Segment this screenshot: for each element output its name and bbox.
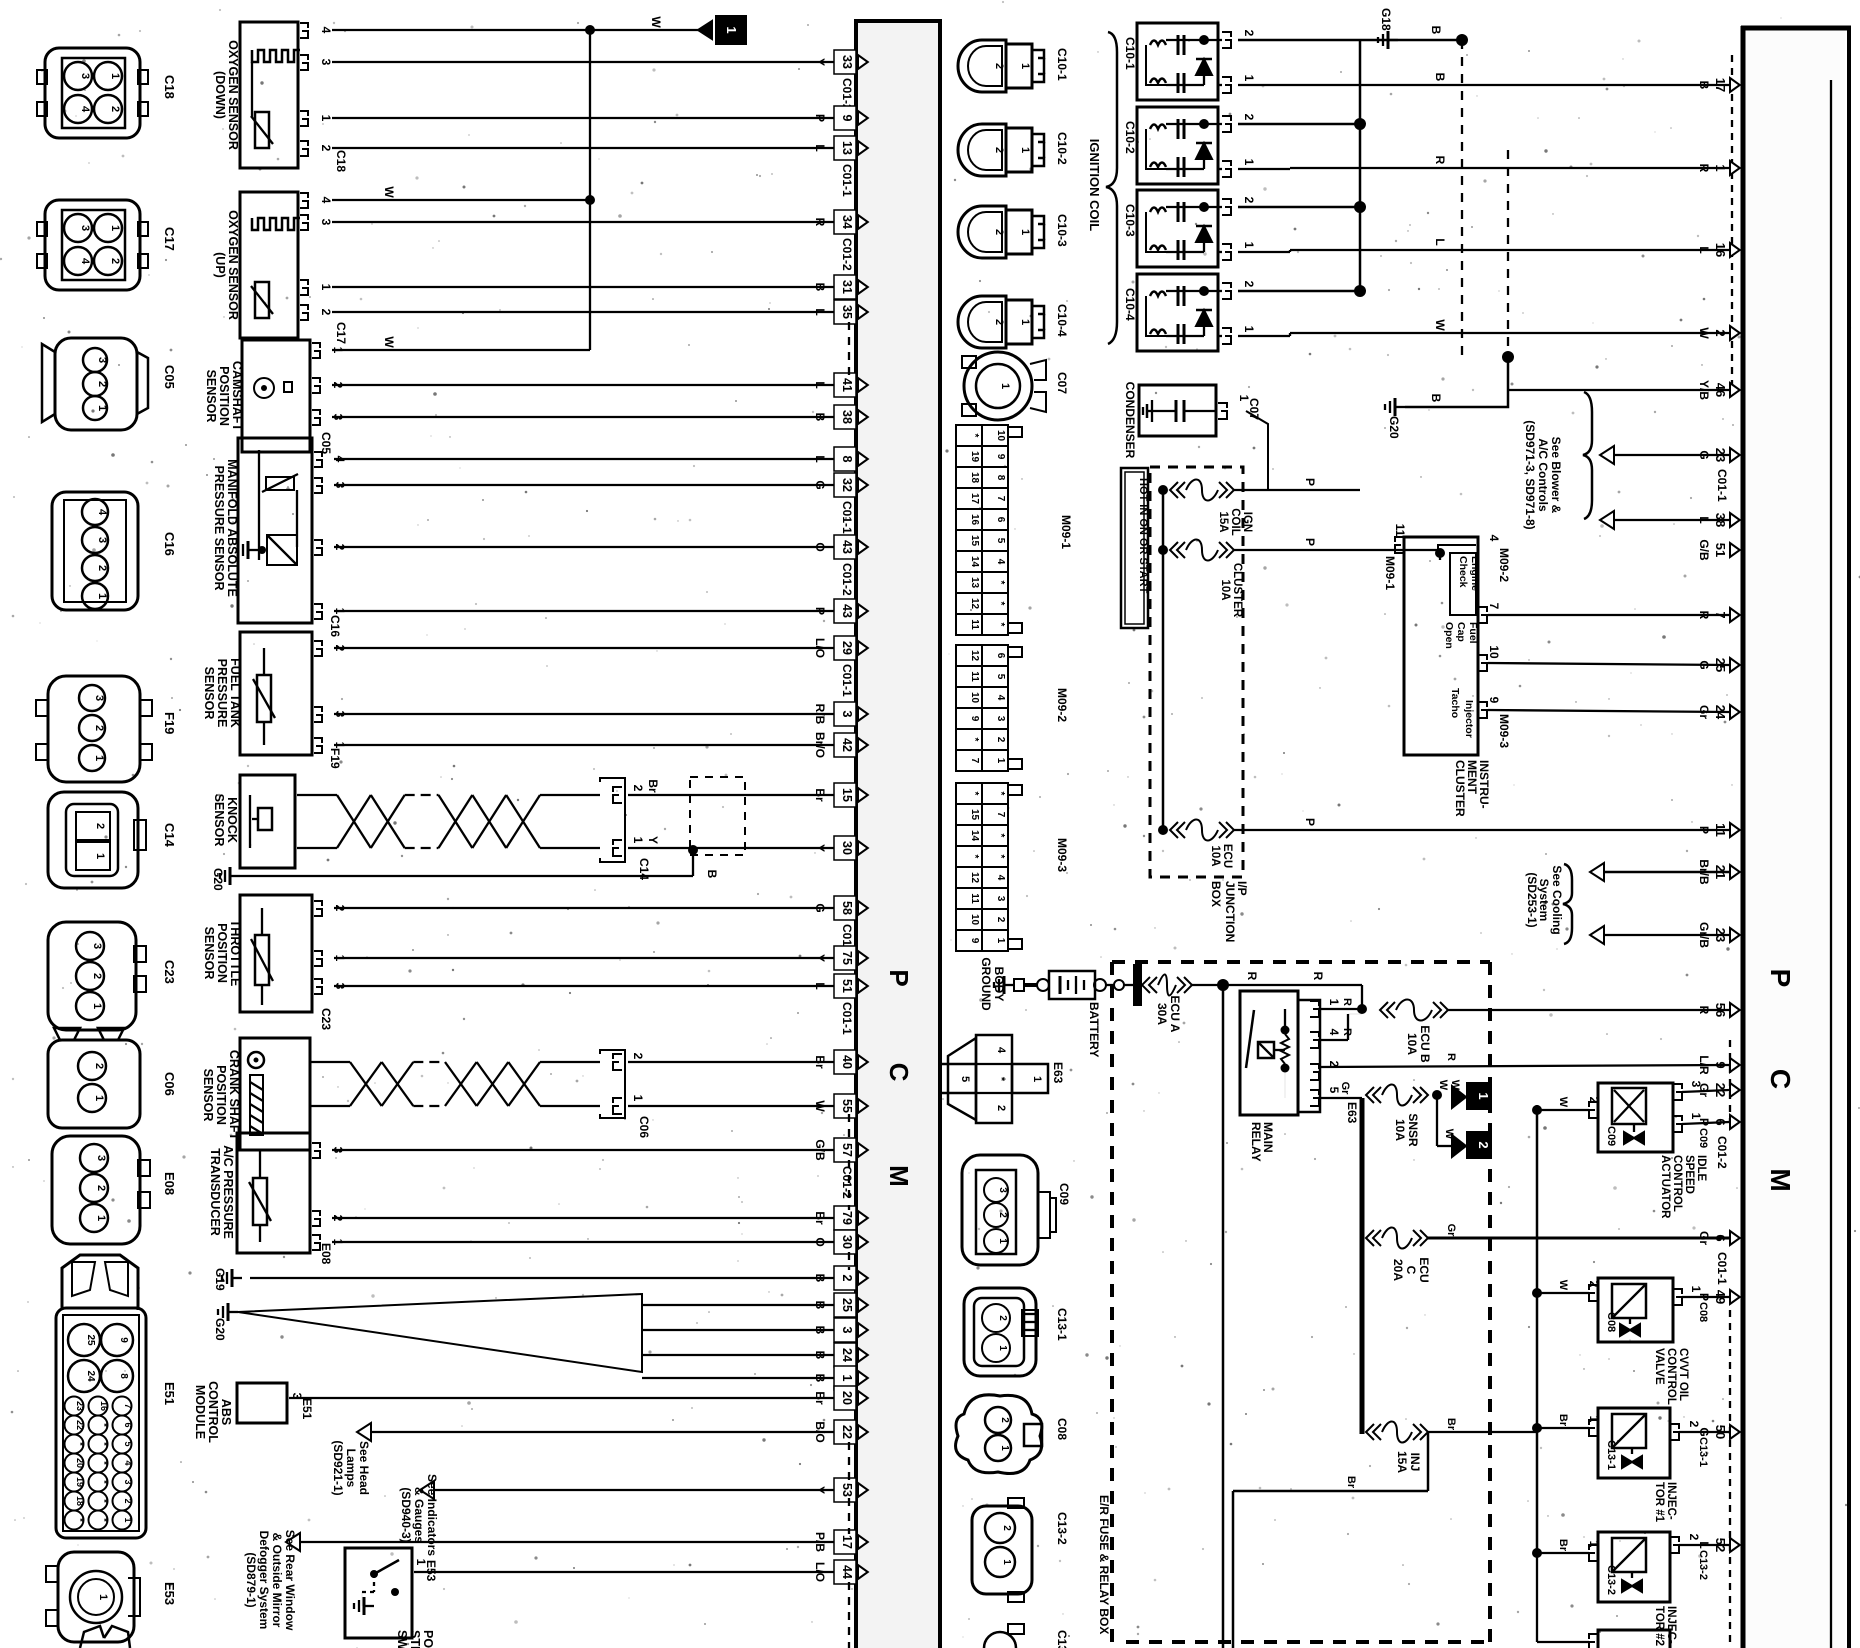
svg-text:OXYGEN SENSOR: OXYGEN SENSOR <box>226 40 240 150</box>
svg-text:11: 11 <box>1393 524 1407 537</box>
svg-text:L: L <box>1697 246 1711 253</box>
svg-text:Br: Br <box>813 1211 827 1225</box>
svg-text:25: 25 <box>1713 658 1728 672</box>
svg-text:R: R <box>1311 972 1325 981</box>
svg-text:CVVT OIL: CVVT OIL <box>1677 1348 1689 1401</box>
svg-text:5: 5 <box>1327 1087 1341 1094</box>
svg-text:8: 8 <box>840 456 854 463</box>
svg-text:ECU: ECU <box>1221 844 1233 868</box>
svg-text:Br: Br <box>646 779 660 793</box>
svg-text:F19: F19 <box>328 748 342 769</box>
svg-text:C01-1: C01-1 <box>1715 469 1729 502</box>
svg-text:B: B <box>813 1301 827 1310</box>
svg-text:Gr: Gr <box>1445 1224 1457 1238</box>
svg-text:4: 4 <box>79 258 91 265</box>
svg-text:R: R <box>1245 972 1259 981</box>
svg-text:9: 9 <box>1713 1061 1728 1068</box>
svg-text:C14: C14 <box>637 858 651 880</box>
svg-text:2: 2 <box>997 1315 1008 1321</box>
svg-text:1: 1 <box>1031 1076 1043 1082</box>
svg-text:1: 1 <box>1689 1286 1703 1293</box>
svg-text:C13-1: C13-1 <box>1697 1437 1709 1467</box>
svg-text:1: 1 <box>1476 1092 1491 1099</box>
svg-text:2: 2 <box>123 1498 133 1503</box>
svg-text:MANIFOLD ABSOLUTE: MANIFOLD ABSOLUTE <box>225 459 239 597</box>
svg-text:P/B: P/B <box>813 1532 827 1552</box>
svg-text:C13-1: C13-1 <box>1605 1440 1617 1470</box>
svg-text:4: 4 <box>319 197 333 204</box>
svg-text:1: 1 <box>123 1517 133 1522</box>
svg-text:1: 1 <box>93 755 105 761</box>
svg-text:1: 1 <box>1019 147 1031 153</box>
svg-text:2: 2 <box>93 725 105 731</box>
svg-text:R: R <box>1445 1053 1457 1061</box>
svg-text:2: 2 <box>993 229 1005 235</box>
svg-text:R: R <box>1433 156 1447 165</box>
svg-text:Br: Br <box>1557 1539 1569 1552</box>
svg-text:E63: E63 <box>1051 1062 1065 1084</box>
svg-text:6: 6 <box>1713 1234 1728 1241</box>
svg-text:COIL: COIL <box>1229 508 1241 535</box>
svg-text:SENSOR: SENSOR <box>201 1069 215 1122</box>
svg-text:C07: C07 <box>1055 372 1069 394</box>
svg-text:4: 4 <box>123 1460 133 1465</box>
svg-text:9: 9 <box>969 938 980 944</box>
svg-text:3: 3 <box>79 225 91 231</box>
svg-text:*: * <box>99 1518 109 1522</box>
svg-text:C06: C06 <box>637 1116 651 1138</box>
svg-text:5: 5 <box>123 1441 133 1446</box>
svg-text:43: 43 <box>840 604 854 618</box>
svg-text:GROUND: GROUND <box>979 957 993 1011</box>
svg-text:1: 1 <box>1242 326 1256 333</box>
svg-text:*: * <box>995 581 1006 585</box>
svg-text:58: 58 <box>840 901 854 915</box>
svg-text:4: 4 <box>96 509 108 516</box>
svg-text:Gr/B: Gr/B <box>1697 922 1711 948</box>
svg-text:2: 2 <box>95 1185 107 1191</box>
svg-text:ABS: ABS <box>219 1399 233 1425</box>
svg-text:31: 31 <box>840 280 854 294</box>
svg-text:*: * <box>969 434 980 438</box>
svg-text:L: L <box>813 982 827 989</box>
svg-text:G: G <box>1697 450 1711 459</box>
svg-text:B: B <box>1429 26 1443 35</box>
svg-text:POSITION: POSITION <box>215 923 229 983</box>
svg-text:18: 18 <box>969 472 980 484</box>
svg-text:P: P <box>1697 1118 1711 1126</box>
svg-text:*: * <box>75 1442 85 1446</box>
svg-text:2: 2 <box>93 1063 105 1069</box>
svg-text:4: 4 <box>79 106 91 113</box>
svg-text:C17: C17 <box>334 322 348 344</box>
svg-text:9: 9 <box>995 454 1006 460</box>
svg-text:L: L <box>1697 516 1711 523</box>
svg-text:3: 3 <box>123 1479 133 1484</box>
svg-text:Y: Y <box>813 954 827 962</box>
svg-text:4: 4 <box>995 1047 1007 1054</box>
svg-text:P: P <box>1303 818 1317 826</box>
svg-text:1: 1 <box>1242 75 1256 82</box>
svg-text:L: L <box>1697 1541 1711 1548</box>
svg-text:*: * <box>99 1423 109 1427</box>
svg-text:6: 6 <box>995 653 1006 659</box>
svg-text:9: 9 <box>969 716 980 722</box>
svg-text:W: W <box>649 16 663 28</box>
svg-text:RELAY: RELAY <box>1249 1122 1263 1162</box>
svg-text:(SD940-3): (SD940-3) <box>399 1487 413 1542</box>
svg-text:PRESSURE: PRESSURE <box>215 659 229 728</box>
svg-text:BATTERY: BATTERY <box>1087 1002 1101 1057</box>
svg-text:42: 42 <box>840 738 854 752</box>
svg-text:KNOCK: KNOCK <box>225 797 239 843</box>
svg-text:B: B <box>1429 394 1443 403</box>
svg-text:E08: E08 <box>319 1243 333 1265</box>
svg-text:*: * <box>99 1442 109 1446</box>
svg-text:Tacho: Tacho <box>1449 688 1461 718</box>
svg-text:10A: 10A <box>1405 1033 1419 1055</box>
svg-text:*: * <box>995 792 1006 796</box>
svg-text:12: 12 <box>969 598 980 610</box>
svg-text:49: 49 <box>1713 1290 1728 1304</box>
svg-text:35: 35 <box>840 305 854 319</box>
svg-text:1: 1 <box>999 383 1011 389</box>
svg-text:TOR #2: TOR #2 <box>1653 1606 1665 1646</box>
svg-text:2: 2 <box>631 785 645 792</box>
svg-text:C13-2: C13-2 <box>1055 1512 1069 1545</box>
svg-text:4: 4 <box>1327 1029 1341 1036</box>
svg-text:M09-1: M09-1 <box>1059 515 1073 549</box>
svg-text:W: W <box>1697 327 1711 339</box>
svg-text:C18: C18 <box>162 75 177 99</box>
svg-text:B: B <box>1433 73 1447 82</box>
svg-text:43: 43 <box>840 540 854 554</box>
svg-text:2: 2 <box>999 1417 1010 1423</box>
svg-text:Y: Y <box>813 58 827 66</box>
svg-text:C08: C08 <box>1605 1312 1617 1332</box>
svg-text:52: 52 <box>1713 1538 1728 1552</box>
svg-text:*: * <box>969 792 980 796</box>
svg-text:1: 1 <box>91 1003 103 1009</box>
svg-text:Y: Y <box>813 1486 827 1494</box>
svg-text:(DOWN): (DOWN) <box>213 71 227 119</box>
svg-text:See Blower &: See Blower & <box>1549 437 1563 514</box>
svg-text:INJ: INJ <box>1408 1453 1422 1472</box>
svg-text:32: 32 <box>840 478 854 492</box>
svg-text:P: P <box>1765 969 1796 988</box>
svg-text:8: 8 <box>995 475 1006 481</box>
svg-text:C10-2: C10-2 <box>1123 121 1137 154</box>
svg-text:2: 2 <box>1001 1525 1012 1531</box>
svg-text:56: 56 <box>1713 1003 1728 1017</box>
svg-text:10: 10 <box>969 914 980 926</box>
svg-text:2: 2 <box>319 145 333 152</box>
svg-text:C10-1: C10-1 <box>1123 37 1137 70</box>
svg-text:3: 3 <box>997 1187 1008 1193</box>
svg-text:Br: Br <box>1557 1414 1569 1427</box>
svg-text:1: 1 <box>631 1095 645 1102</box>
svg-text:2: 2 <box>1242 114 1256 121</box>
svg-text:See Indicators: See Indicators <box>425 1474 439 1556</box>
svg-text:ECU B: ECU B <box>1418 1025 1432 1063</box>
svg-text:4: 4 <box>1487 535 1501 542</box>
svg-text:M09-2: M09-2 <box>1497 548 1511 582</box>
svg-text:24: 24 <box>85 1370 96 1382</box>
svg-text:Br: Br <box>1345 1476 1357 1489</box>
svg-text:51: 51 <box>840 979 854 993</box>
svg-text:18: 18 <box>75 1496 85 1506</box>
svg-text:SNSR: SNSR <box>1406 1113 1420 1147</box>
svg-text:G: G <box>813 480 827 489</box>
svg-text:*: * <box>99 1499 109 1503</box>
svg-text:Br: Br <box>813 1055 827 1069</box>
svg-text:Br/B: Br/B <box>1697 859 1711 885</box>
svg-text:& Gauges: & Gauges <box>412 1487 426 1543</box>
svg-text:24: 24 <box>1713 705 1728 720</box>
svg-text:17: 17 <box>969 493 980 505</box>
svg-text:PRESSURE SENSOR: PRESSURE SENSOR <box>212 465 226 590</box>
svg-text:1: 1 <box>1242 159 1256 166</box>
svg-text:38: 38 <box>1713 513 1728 527</box>
svg-text:55: 55 <box>840 1099 854 1113</box>
svg-text:11: 11 <box>969 619 980 630</box>
svg-text:C16: C16 <box>162 532 177 556</box>
svg-text:34: 34 <box>840 215 854 229</box>
svg-text:G: G <box>1697 660 1711 669</box>
svg-text:POSITION: POSITION <box>214 1065 228 1125</box>
svg-text:33: 33 <box>840 55 854 69</box>
svg-text:C09: C09 <box>1697 1128 1709 1148</box>
svg-text:6: 6 <box>1713 1118 1728 1125</box>
svg-text:30A: 30A <box>1155 1003 1169 1025</box>
svg-text:1: 1 <box>95 1215 107 1221</box>
svg-text:17: 17 <box>1713 78 1728 92</box>
svg-text:40: 40 <box>840 1055 854 1069</box>
svg-text:C17: C17 <box>162 227 177 251</box>
svg-text:(SD253-1): (SD253-1) <box>1525 872 1539 927</box>
svg-text:Lamps: Lamps <box>344 1449 358 1488</box>
svg-text:Gr: Gr <box>1339 1082 1351 1096</box>
svg-text:CLUSTER: CLUSTER <box>1453 760 1467 817</box>
svg-text:1: 1 <box>1019 63 1031 69</box>
svg-text:CONTROL: CONTROL <box>1671 1155 1683 1212</box>
svg-text:Defogger System: Defogger System <box>257 1531 271 1630</box>
svg-text:2: 2 <box>1713 329 1728 336</box>
svg-text:3: 3 <box>96 537 108 543</box>
svg-text:C01-2: C01-2 <box>840 1166 854 1199</box>
svg-text:2: 2 <box>997 1212 1008 1218</box>
svg-text:10: 10 <box>969 692 980 704</box>
svg-text:1: 1 <box>997 1238 1008 1244</box>
svg-text:7: 7 <box>969 758 980 764</box>
svg-text:Check: Check <box>1457 556 1469 588</box>
svg-text:1: 1 <box>1019 319 1031 325</box>
svg-text:C: C <box>884 1063 914 1082</box>
svg-text:1: 1 <box>995 758 1006 764</box>
svg-text:CLUSTER: CLUSTER <box>1231 563 1243 618</box>
svg-text:4: 4 <box>995 695 1006 701</box>
svg-text:9: 9 <box>840 115 854 122</box>
svg-text:ACTUATOR: ACTUATOR <box>1659 1155 1671 1219</box>
svg-text:*: * <box>995 602 1006 606</box>
svg-text:15: 15 <box>969 535 980 547</box>
svg-text:2: 2 <box>91 973 103 979</box>
svg-text:THROTTLE: THROTTLE <box>228 920 242 987</box>
svg-text:CAMSHAFT: CAMSHAFT <box>230 361 244 431</box>
svg-text:G/B: G/B <box>1697 539 1711 561</box>
svg-text:C01-2: C01-2 <box>840 563 854 596</box>
svg-text:44: 44 <box>840 1565 854 1579</box>
svg-text:Y: Y <box>813 844 827 852</box>
svg-text:G/B: G/B <box>813 1139 827 1161</box>
svg-text:1: 1 <box>1001 1559 1012 1565</box>
svg-text:*: * <box>99 1480 109 1484</box>
svg-text:10A: 10A <box>1393 1119 1407 1141</box>
svg-text:VALVE: VALVE <box>1653 1348 1665 1385</box>
svg-text:2: 2 <box>1242 197 1256 204</box>
svg-text:See Rear Window: See Rear Window <box>283 1530 297 1631</box>
svg-text:B: B <box>813 1326 827 1335</box>
svg-text:*: * <box>969 855 980 859</box>
svg-text:Gr: Gr <box>1697 705 1711 719</box>
svg-text:C18: C18 <box>334 150 348 172</box>
svg-text:(UP): (UP) <box>213 252 227 278</box>
svg-text:F19: F19 <box>162 712 177 734</box>
svg-text:C13-2: C13-2 <box>1697 1550 1709 1580</box>
svg-text:C23: C23 <box>162 960 177 984</box>
svg-text:BOX: BOX <box>1209 881 1223 907</box>
svg-text:Y: Y <box>646 836 660 844</box>
svg-text:10A: 10A <box>1219 579 1231 600</box>
svg-text:16: 16 <box>1713 243 1728 257</box>
svg-text:51: 51 <box>1713 543 1728 557</box>
svg-text:11: 11 <box>1713 823 1728 837</box>
svg-text:10A: 10A <box>1209 845 1221 866</box>
svg-text:CONDENSER: CONDENSER <box>1123 382 1137 459</box>
svg-text:Fuel: Fuel <box>1467 622 1479 644</box>
svg-text:M09-3: M09-3 <box>1497 714 1511 748</box>
svg-text:7: 7 <box>1713 611 1728 618</box>
svg-text:3: 3 <box>840 711 854 718</box>
svg-text:2: 2 <box>993 63 1005 69</box>
svg-text:Y/B: Y/B <box>1697 380 1711 400</box>
svg-text:C: C <box>1765 1069 1796 1089</box>
svg-text:L: L <box>813 455 827 462</box>
svg-text:13: 13 <box>840 141 854 155</box>
svg-text:7: 7 <box>995 812 1006 818</box>
svg-text:L: L <box>1433 238 1447 245</box>
svg-text:E53: E53 <box>162 1582 177 1605</box>
svg-text:G19: G19 <box>213 1268 227 1291</box>
svg-text:19: 19 <box>75 1477 85 1487</box>
svg-text:R: R <box>1341 998 1353 1006</box>
svg-text:L/O: L/O <box>813 638 827 658</box>
svg-text:M: M <box>884 1165 914 1187</box>
svg-text:C10-3: C10-3 <box>1055 214 1069 247</box>
svg-text:38: 38 <box>840 410 854 424</box>
svg-text:E51: E51 <box>300 1398 314 1420</box>
svg-text:1: 1 <box>319 284 333 291</box>
svg-text:C10-3: C10-3 <box>1123 204 1137 237</box>
svg-text:20: 20 <box>75 1458 85 1468</box>
svg-text:4: 4 <box>995 875 1006 881</box>
svg-text:M: M <box>1765 1168 1796 1191</box>
svg-text:25: 25 <box>840 1298 854 1312</box>
svg-text:1: 1 <box>319 115 333 122</box>
svg-text:2: 2 <box>995 737 1006 743</box>
svg-text:B: B <box>813 283 827 292</box>
svg-text:C09: C09 <box>1057 1183 1071 1205</box>
svg-text:7: 7 <box>995 496 1006 502</box>
svg-text:R/B: R/B <box>813 704 827 725</box>
svg-text:P: P <box>813 114 827 122</box>
svg-text:Gr: Gr <box>1697 1083 1711 1097</box>
svg-text:20: 20 <box>840 1391 854 1405</box>
svg-text:57: 57 <box>840 1143 854 1157</box>
svg-text:TRANSDUCER: TRANSDUCER <box>208 1148 222 1236</box>
svg-text:R: R <box>1697 164 1711 173</box>
svg-text:(SD971-3, SD971-8): (SD971-3, SD971-8) <box>1523 420 1537 529</box>
svg-text:C13-2: C13-2 <box>1605 1565 1617 1595</box>
svg-text:30: 30 <box>840 1235 854 1249</box>
svg-text:50: 50 <box>1713 1425 1728 1439</box>
svg-text:2: 2 <box>109 106 121 112</box>
svg-text:G18: G18 <box>1379 8 1393 31</box>
svg-text:20A: 20A <box>1391 1259 1405 1281</box>
svg-text:10: 10 <box>1487 645 1501 659</box>
svg-text:2: 2 <box>995 917 1006 923</box>
svg-text:Cap: Cap <box>1455 622 1467 642</box>
svg-text:*: * <box>995 1077 1007 1082</box>
svg-text:A/C PRESSURE: A/C PRESSURE <box>221 1145 235 1239</box>
svg-text:3: 3 <box>96 357 108 363</box>
svg-text:C16: C16 <box>328 615 342 637</box>
svg-text:P: P <box>813 607 827 615</box>
svg-text:C07: C07 <box>1247 398 1261 420</box>
svg-text:W: W <box>1433 319 1447 331</box>
svg-text:G20: G20 <box>211 868 225 891</box>
svg-text:2: 2 <box>94 823 106 829</box>
svg-text:B: B <box>813 1374 827 1383</box>
svg-text:E/R FUSE & RELAY BOX: E/R FUSE & RELAY BOX <box>1097 1495 1111 1634</box>
svg-text:P: P <box>884 969 914 986</box>
svg-text:CONTROL: CONTROL <box>1665 1348 1677 1405</box>
svg-text:W: W <box>382 336 396 348</box>
svg-text:11: 11 <box>969 671 980 682</box>
svg-text:SENSOR: SENSOR <box>204 370 218 423</box>
svg-text:*: * <box>995 834 1006 838</box>
svg-text:C08: C08 <box>1055 1418 1069 1440</box>
svg-text:2: 2 <box>995 1105 1007 1111</box>
svg-text:21: 21 <box>1713 865 1728 879</box>
svg-text:29: 29 <box>840 641 854 655</box>
svg-text:3: 3 <box>319 219 333 226</box>
svg-text:2: 2 <box>631 1053 645 1060</box>
svg-text:24: 24 <box>840 1348 854 1362</box>
svg-text:*: * <box>995 855 1006 859</box>
svg-text:*: * <box>995 623 1006 627</box>
svg-text:Br/O: Br/O <box>813 732 827 758</box>
svg-text:SWITCH: SWITCH <box>395 1630 409 1648</box>
svg-text:M09-3: M09-3 <box>1055 838 1069 872</box>
svg-text:14: 14 <box>969 830 980 842</box>
svg-text:B/O: B/O <box>813 1421 827 1442</box>
svg-text:G: G <box>813 903 827 912</box>
svg-text:C13-1: C13-1 <box>1055 1308 1069 1341</box>
svg-text:R: R <box>813 218 827 227</box>
svg-text:C13-: C13- <box>1055 1630 1069 1648</box>
svg-text:2: 2 <box>1476 1141 1491 1148</box>
